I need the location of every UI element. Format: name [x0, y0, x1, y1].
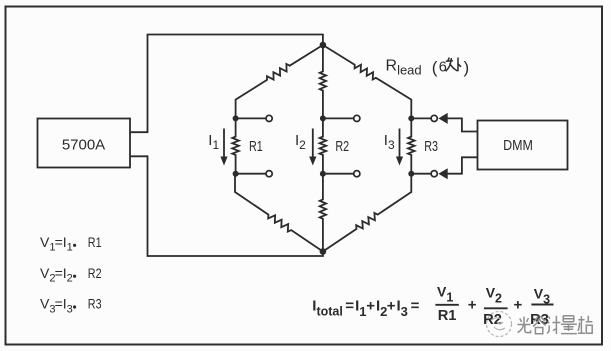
node branch2 top [320, 115, 326, 121]
terminal circle branch2 top [354, 115, 360, 121]
node branch1 bottom [233, 171, 239, 177]
meter box DMM [478, 121, 568, 170]
equation Itotal = I1+I2+I3 = V1/R1 + V2/R2 + V3/R3 [312, 284, 553, 328]
svg-text:DMM: DMM [503, 138, 533, 154]
terminal circle branch3 bottom [431, 171, 437, 177]
resistor Rlead bottom-middle [320, 174, 326, 252]
resistor R2 [320, 118, 327, 173]
terminal circle branch1 top [266, 115, 272, 121]
arrowhead DMM Hi sense [438, 113, 447, 124]
resistor Rlead bottom-left [235, 174, 323, 252]
wire 5700A Lo output to bottom rail [131, 156, 323, 256]
svg-text:R3: R3 [88, 296, 102, 312]
equation V3=I3·R3 [40, 296, 102, 316]
node branch3 top [408, 115, 414, 121]
sense wire DMM Hi [447, 118, 478, 131]
arrowhead DMM Lo sense [438, 168, 447, 179]
terminal stub branch1 bottom [236, 173, 266, 175]
watermark logo circle [487, 312, 512, 337]
resistor Rlead top-middle [320, 45, 326, 118]
node bottom junction [320, 248, 327, 255]
terminal circle branch1 bottom [266, 171, 272, 177]
svg-text:R1: R1 [249, 139, 263, 155]
label (6处) [432, 58, 469, 78]
svg-text:): ) [464, 58, 470, 77]
watermark text 光谷计量站 [518, 316, 593, 334]
svg-text:R1: R1 [88, 234, 102, 250]
wire 5700A Hi output to top rail [131, 35, 323, 133]
node top junction [320, 42, 327, 49]
resistor R1 [232, 118, 239, 173]
equation V2=I2·R2 [40, 265, 102, 285]
svg-text:+: + [366, 298, 375, 315]
resistor Rlead bottom-right [323, 174, 411, 252]
svg-text:+: + [387, 298, 396, 315]
terminal stub branch3 top [411, 117, 431, 119]
terminal circle branch3 top [431, 115, 437, 121]
resistor Rlead top-right [323, 45, 411, 118]
terminal stub branch1 top [236, 117, 266, 119]
terminal stub branch3 bottom [411, 173, 431, 175]
svg-text:(: ( [432, 58, 438, 77]
node branch1 top [233, 115, 239, 121]
svg-text:6: 6 [439, 60, 447, 76]
sense wire DMM Lo [447, 157, 478, 173]
terminal stub branch2 top [323, 117, 354, 119]
svg-text:+: + [468, 297, 477, 314]
node branch3 bottom [408, 171, 414, 177]
current arrow I1 [223, 129, 225, 158]
svg-text:=: = [411, 298, 420, 315]
svg-text:=: = [345, 298, 354, 315]
terminal stub branch2 bottom [323, 173, 354, 175]
equation V1=I1·R1 [40, 234, 102, 254]
resistor Rlead top-left [236, 45, 323, 118]
terminal circle branch2 bottom [354, 171, 360, 177]
svg-text:R3: R3 [424, 139, 438, 155]
svg-text:R2: R2 [335, 139, 349, 155]
svg-text:5700A: 5700A [62, 137, 105, 154]
node branch2 bottom [320, 171, 326, 177]
current arrow I3 [399, 129, 401, 158]
resistor R3 [408, 118, 415, 173]
svg-text:+: + [514, 297, 523, 314]
svg-text:R1: R1 [438, 308, 457, 324]
source box 5700A [38, 119, 131, 168]
current arrow I2 [312, 129, 314, 158]
svg-text:R2: R2 [88, 265, 102, 281]
